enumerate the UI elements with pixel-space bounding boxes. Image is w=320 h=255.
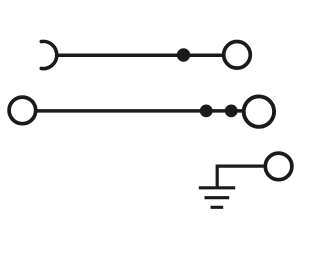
ground bar 3 [211,206,224,209]
wire row 2 [36,109,243,113]
terminal circle row 2 left [9,97,36,124]
socket contact (open arc) row 1 [41,41,56,68]
node junction dot row 2 a [200,105,213,118]
wire ground L-shape [217,166,263,188]
terminal circle ground row [265,153,292,180]
node junction dot row 1 [177,48,190,61]
ground bar 2 [205,196,230,199]
wire row 1 [56,53,222,57]
node junction dot row 2 b [225,105,238,118]
terminal circle row 2 right [244,96,274,126]
terminal circle row 1 right [224,42,251,69]
ground bar 1 [199,186,235,189]
